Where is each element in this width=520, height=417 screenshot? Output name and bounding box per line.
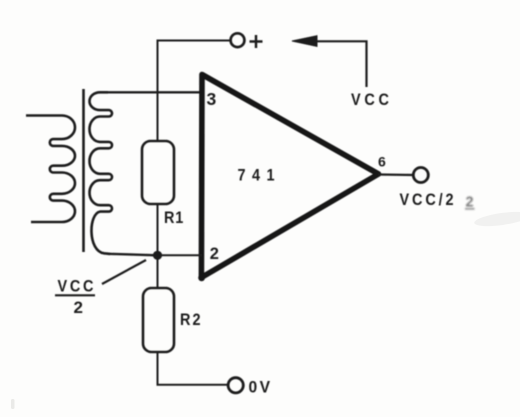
- svg-text:VCC: VCC: [351, 91, 393, 109]
- svg-text:VCC/2: VCC/2: [400, 191, 457, 209]
- terminal circle +: [231, 33, 245, 47]
- svg-text:R1: R1: [164, 209, 184, 227]
- faint smudge bottom left: [11, 399, 15, 409]
- wire: node to pin 2: [151, 254, 202, 256]
- wire: top horizontal to + terminal: [157, 40, 231, 42]
- transformer T1 primary winding: [26, 116, 75, 223]
- faint artifact mark after VCC/2: [465, 195, 475, 211]
- svg-text:2: 2: [210, 245, 219, 263]
- resistor R1: [142, 141, 174, 204]
- svg-text:R2: R2: [180, 311, 203, 329]
- svg-text:741: 741: [238, 166, 281, 184]
- svg-text:6: 6: [378, 154, 386, 170]
- corner overshoot blob: [198, 274, 205, 281]
- svg-text:2: 2: [74, 298, 83, 317]
- transformer core: [82, 89, 85, 252]
- wire: pin 6 output: [378, 173, 414, 176]
- svg-text:VCC: VCC: [58, 277, 97, 295]
- arrowhead: [292, 36, 317, 47]
- terminal circle output: [413, 168, 428, 183]
- faint scan streak bottom right: [473, 209, 520, 229]
- wire: secondary top to pin 3: [106, 91, 202, 93]
- transformer T1 secondary winding: [90, 92, 113, 254]
- wire: R2 bottom to 0V terminal: [158, 352, 229, 385]
- terminal circle 0V: [228, 378, 243, 393]
- svg-text:3: 3: [207, 89, 217, 109]
- node junction dot: [153, 251, 162, 260]
- wire: secondary bottom to node: [108, 254, 157, 256]
- pointer line from VCC/2 label to node: [102, 260, 146, 284]
- wire: R1 bottom to node / R2 top: [157, 204, 159, 288]
- op-amp U1 741 triangle: [201, 75, 378, 278]
- label +: [250, 35, 263, 48]
- svg-text:0V: 0V: [249, 378, 273, 397]
- wire: vertical from + terminal down to R1: [157, 41, 159, 143]
- resistor R2: [143, 288, 174, 352]
- arrow to VCC: [316, 41, 367, 87]
